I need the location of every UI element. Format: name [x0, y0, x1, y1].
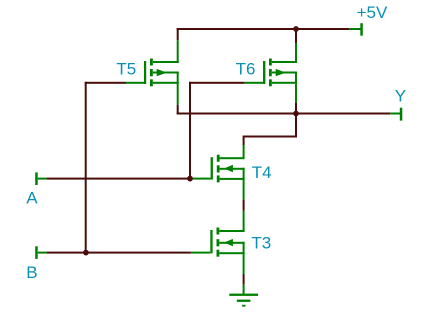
transistor T5 (PMOS)	[126, 40, 179, 105]
svg-text:T3: T3	[251, 234, 271, 253]
junction dot (T6 drain on +5V rail)	[293, 26, 299, 32]
svg-text:T4: T4	[252, 163, 272, 182]
wire: T6 drain to +5V rail	[295, 29, 297, 44]
transistor T3 (NMOS)	[191, 211, 245, 274]
wire: T5 drain to +5V rail	[177, 28, 179, 40]
junction dot (input B / T5 gate)	[83, 250, 89, 256]
wire: input A	[47, 178, 189, 180]
transistor T4 (NMOS)	[191, 145, 245, 200]
transistor T6 (PMOS)	[244, 43, 297, 103]
wire: +5V supply rail	[177, 28, 350, 30]
wire: T4 source to T3 drain	[243, 200, 245, 211]
+5V supply pin	[349, 23, 363, 36]
wire: B to T5 gate (vertical)	[85, 82, 87, 253]
wire: Y node down	[295, 114, 297, 138]
input pin A	[35, 172, 46, 185]
svg-text:Y: Y	[395, 87, 406, 106]
junction dot (Y node)	[293, 111, 299, 117]
wire: T3 source to ground	[243, 274, 245, 285]
svg-text:B: B	[26, 263, 37, 282]
wire: T5 source drop to Y line	[177, 105, 179, 115]
ground	[229, 285, 258, 307]
wire: A to T6 gate (vertical)	[189, 82, 191, 180]
junction dot (input A / T4 gate)	[187, 176, 193, 182]
svg-text:A: A	[26, 189, 38, 208]
svg-text:+5V: +5V	[357, 3, 388, 22]
wire: input B	[47, 252, 191, 254]
input pin B	[35, 246, 46, 259]
wire: T6 gate horizontal	[189, 82, 244, 84]
svg-text:T5: T5	[116, 60, 136, 79]
wire: T5 gate horizontal	[85, 82, 126, 84]
wire: down to T4 drain	[243, 138, 245, 146]
wire: T6 source drop to Y line	[295, 103, 297, 114]
Y output pin	[390, 108, 402, 121]
svg-text:T6: T6	[236, 60, 256, 79]
wire: Y output line	[177, 113, 391, 115]
wire: jog toward T4 drain	[243, 136, 297, 138]
